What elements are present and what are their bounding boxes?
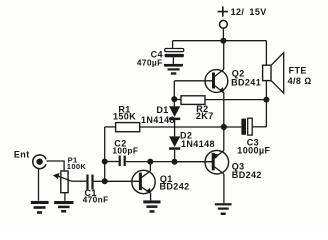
node Q2 base / D1 / R2 <box>171 96 177 102</box>
wire terminal to rail <box>222 28 224 41</box>
label R2 2K7 <box>196 104 214 121</box>
wire P1 to ground <box>64 193 66 201</box>
svg-text:12/ 15V: 12/ 15V <box>231 7 267 17</box>
transistor Q3 <box>205 150 229 174</box>
wire Q1 emitter to ground <box>150 193 152 200</box>
capacitor C1 <box>86 175 93 190</box>
capacitor C3 <box>241 118 252 135</box>
svg-text:2K7: 2K7 <box>196 111 214 121</box>
svg-text:100K: 100K <box>67 162 87 171</box>
svg-text:1000µF: 1000µF <box>237 145 270 155</box>
wire to C2 <box>105 161 119 163</box>
input jack <box>33 155 46 169</box>
svg-text:4/8 Ω: 4/8 Ω <box>288 76 312 86</box>
label D2 1N4148 <box>180 130 215 149</box>
wire top rail <box>173 40 267 42</box>
label P1 100K <box>67 155 87 171</box>
svg-text:FTE: FTE <box>289 66 307 76</box>
svg-text:470µF: 470µF <box>137 58 163 68</box>
wire Q3 base <box>175 161 213 163</box>
capacitor C2 <box>119 156 126 166</box>
wire C1 to Q1 base node <box>94 180 105 182</box>
wire C3 to speaker column <box>252 126 266 128</box>
transistor Q1 <box>132 170 155 193</box>
wire Q1 collector up <box>149 162 151 171</box>
node Q1 base / C1 <box>102 178 108 184</box>
wire R1 feedback to output node and C3 <box>140 126 242 128</box>
capacitor C4 <box>165 49 184 58</box>
node Q1 collector <box>147 159 153 165</box>
svg-text:470nF: 470nF <box>83 195 109 205</box>
wire D1 to D2 <box>174 120 176 136</box>
label Q3 BD242 <box>232 162 262 180</box>
svg-text:100pF: 100pF <box>112 146 138 156</box>
transistor Q2 <box>205 69 228 93</box>
ground (P1) <box>54 201 73 213</box>
wire Q2 base <box>174 80 212 82</box>
node supply rail junction <box>220 38 226 44</box>
supply terminal <box>220 20 228 28</box>
wire left vertical C1/C2/R1 <box>104 127 106 181</box>
speaker FTE 4/8ohm <box>263 53 284 94</box>
svg-text:Ent: Ent <box>14 150 30 160</box>
potentiometer P1 <box>53 171 71 193</box>
wire D2 to Q3 base node <box>174 150 176 162</box>
diode D2 <box>169 136 180 149</box>
wire rail down to speaker <box>265 41 267 65</box>
ground (C4) <box>164 64 183 75</box>
wire rail down to C4 <box>172 41 174 49</box>
wire R2 to speaker node <box>205 99 266 101</box>
resistor R1 <box>105 123 140 132</box>
ground (Q3) <box>215 203 232 215</box>
wire Q2 collector to rail <box>223 41 225 70</box>
label C4 470uF <box>137 49 163 67</box>
label D1 1N4148 <box>141 105 175 125</box>
node speaker bottom / R2 <box>263 97 269 103</box>
wire speaker to node <box>265 81 267 127</box>
svg-text:BD242: BD242 <box>160 181 190 191</box>
node C2 left <box>102 159 108 165</box>
label R1 150K <box>113 104 136 121</box>
diode D1 <box>169 106 180 120</box>
resistor R2 <box>174 96 205 105</box>
wire C4 to ground <box>172 57 174 64</box>
svg-text:1N4148: 1N4148 <box>181 139 215 149</box>
label C3 1000uF <box>237 137 270 155</box>
wire jack to ground <box>38 169 40 201</box>
supply plus symbol <box>218 6 228 16</box>
wire Q2 base chain vertical <box>173 81 175 107</box>
wire C2 to Q3 base <box>126 161 212 163</box>
node output (Q2/Q3 emitters) <box>221 124 227 130</box>
svg-text:1N4148: 1N4148 <box>141 115 175 125</box>
label Q1 BD242 <box>160 174 190 191</box>
svg-text:D1: D1 <box>156 105 168 115</box>
wire Q3 collector to ground <box>223 174 225 203</box>
label FTE 4/8 ohm <box>288 66 312 87</box>
wire Q1 base <box>105 180 139 182</box>
ground (Q1) <box>143 200 160 212</box>
svg-text:150K: 150K <box>113 111 136 121</box>
label C1 470nF <box>83 188 109 205</box>
svg-text:BD241: BD241 <box>231 78 261 88</box>
label C2 100pF <box>112 138 138 155</box>
node D2 cathode <box>172 159 178 165</box>
svg-text:BD242: BD242 <box>232 170 262 180</box>
wire Q2 emitter down to Q3 emitter <box>223 93 225 151</box>
wire jack to P1 <box>46 161 64 171</box>
ground (input) <box>31 201 49 214</box>
label Q2 BD241 <box>231 69 261 88</box>
wire P1 wiper to C1 <box>71 180 87 182</box>
